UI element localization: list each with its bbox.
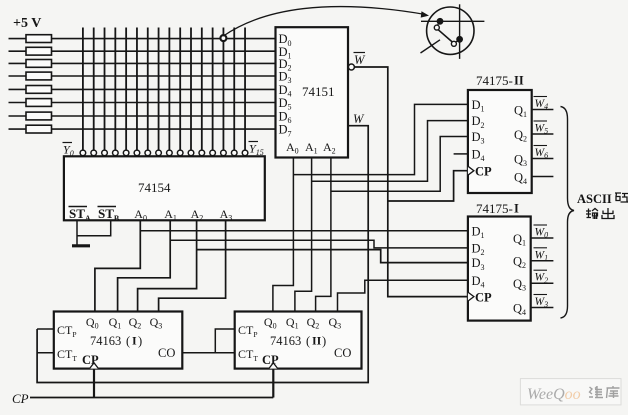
wire column 14 (74154 Y14 output column) xyxy=(233,28,235,151)
op-IC U5 74175-II register box xyxy=(468,90,532,193)
op-IC U1 74151 multiplexer box xyxy=(276,27,349,157)
wire row 6 (key-matrix row to 74151 D6) xyxy=(9,115,276,117)
wire row 1 (key-matrix row to 74151 D1) xyxy=(9,50,276,52)
switch contact b xyxy=(456,39,460,42)
pin bubble Y8 of 74154 xyxy=(167,150,173,156)
wire CTT input of 74163(I) xyxy=(37,352,54,354)
node A (key crosspoint on column 13 / row 0) xyxy=(220,35,226,41)
svg-text:WeeQoo: WeeQoo xyxy=(527,386,581,403)
junction dot on row wire xyxy=(437,18,443,24)
pin bubble of inverted output W-bar xyxy=(348,64,354,70)
wire arc pointer from node A to key detail xyxy=(223,7,426,36)
resistor R8 xyxy=(26,125,52,133)
switch contact a xyxy=(438,21,441,25)
resistor R3 xyxy=(26,60,52,68)
wire 74163(II) Q3 riser to D4 of 74175-I xyxy=(338,280,468,311)
svg-text:II: II xyxy=(514,74,524,88)
pin bubble Y9 of 74154 xyxy=(177,150,183,156)
wire CP drop to 74163(I) xyxy=(93,369,95,398)
svg-text:CP: CP xyxy=(82,353,99,367)
wire column 5 (74154 Y5 output column) xyxy=(136,28,138,151)
ground xyxy=(72,244,90,247)
op-IC U4 74163(II) counter box xyxy=(235,312,362,369)
svg-text:(: ( xyxy=(126,334,130,348)
wire column 7 (74154 Y7 output column) xyxy=(158,28,160,151)
wire 74151 A0 line to 74163(II) Q0 xyxy=(273,158,294,312)
svg-text:CO: CO xyxy=(158,346,175,360)
wire column 9 (74154 Y9 output column) xyxy=(179,28,181,151)
wire CTP input of 74163(I) xyxy=(37,328,54,330)
resistor R5 xyxy=(26,86,52,94)
wire 74163(I) Q0 riser to 74154 A0 xyxy=(95,220,140,311)
wire row 3 (key-matrix row to 74151 D3) xyxy=(9,75,276,77)
junction dot on column wire xyxy=(457,36,463,42)
clock wedge of 74163(I) xyxy=(90,363,99,369)
wire column 11 (74154 Y11 output column) xyxy=(201,28,203,151)
wire branch to D2 of 74175-II xyxy=(312,121,468,182)
wire column 10 (74154 Y10 output column) xyxy=(190,28,192,151)
op-IC U3 74163(I) counter box xyxy=(54,312,183,369)
wire CO of 74163(I) to CTT of 74163(II) xyxy=(182,352,234,354)
svg-text:+5 V: +5 V xyxy=(13,16,41,31)
wire column 1 (74154 Y1 output column) xyxy=(93,28,95,151)
svg-text:74151: 74151 xyxy=(302,84,335,99)
switch lever xyxy=(438,30,452,42)
switch actuator stroke xyxy=(421,40,441,53)
svg-text:74175-: 74175- xyxy=(476,73,513,88)
wire W-bar output to register clocks xyxy=(354,67,468,297)
svg-text:CP: CP xyxy=(475,165,492,179)
wire Q2 output of 74175-I xyxy=(531,260,554,262)
wire column through switch xyxy=(459,4,461,59)
wire row 4 (key-matrix row to 74151 D4) xyxy=(9,88,276,90)
svg-text:ASCII: ASCII xyxy=(577,192,612,206)
wire stub D4 of 74175-II xyxy=(454,153,468,155)
svg-text:(: ( xyxy=(306,334,310,348)
op-IC U6 74175-I register box xyxy=(468,217,531,321)
wire 74163(I) Q2 riser to 74154 A2 xyxy=(138,220,197,311)
wire 74163(I) Q3 riser to 74154 A3 xyxy=(159,220,226,311)
pin bubble Y3 of 74154 xyxy=(113,150,119,156)
pin bubble Y15 of 74154 xyxy=(242,150,248,156)
wire column 0 (74154 Y0 output column) xyxy=(82,28,84,151)
svg-text:): ) xyxy=(322,334,326,348)
hanzi CHU (out-2) xyxy=(602,208,614,219)
hanzi SHU (out-1) xyxy=(586,209,598,220)
wire Q4 output of 74175-I xyxy=(531,307,554,309)
pin bubble Y14 of 74154 xyxy=(231,150,237,156)
wire CP drop to 74163(II) xyxy=(272,369,274,398)
pin bubble Y12 of 74154 xyxy=(210,150,216,156)
resistor R7 xyxy=(26,112,52,120)
wire column 13 (74154 Y13 output column) xyxy=(222,28,224,151)
resistor R4 xyxy=(26,72,52,80)
pin bubble Y7 of 74154 xyxy=(156,150,162,156)
svg-text:W: W xyxy=(353,112,365,126)
pin bubble Y0 of 74154 xyxy=(80,150,86,156)
svg-text:CP: CP xyxy=(262,353,279,367)
wire to D1 of 74175-I xyxy=(140,230,468,232)
clock wedge of 74175-I xyxy=(468,292,474,301)
arrowhead of pointer arc xyxy=(421,11,429,17)
svg-text:CP: CP xyxy=(12,391,29,406)
clock wedge of 74175-II xyxy=(468,166,474,175)
wire ST-A to ground xyxy=(76,220,78,245)
wire Q4 output of 74175-II xyxy=(532,176,554,178)
svg-text:II: II xyxy=(312,334,322,348)
wire column 4 (74154 Y4 output column) xyxy=(125,28,127,151)
svg-text:74154: 74154 xyxy=(138,180,171,195)
watermark hanzi KU xyxy=(607,386,620,398)
svg-text:): ) xyxy=(138,334,142,348)
svg-text:CO: CO xyxy=(334,346,351,360)
wire row 2 (key-matrix row to 74151 D2) xyxy=(9,62,276,64)
wire column 15 (74154 Y15 output column) xyxy=(244,28,246,151)
resistor R2 xyxy=(26,47,52,55)
svg-text:74175-: 74175- xyxy=(476,201,513,216)
svg-text:74163: 74163 xyxy=(90,334,121,348)
watermark hanzi WEI xyxy=(589,386,603,398)
clock wedge of 74163(II) xyxy=(269,363,278,369)
pin bubble Y6 of 74154 xyxy=(145,150,151,156)
resistor R1 xyxy=(26,35,52,43)
svg-text:CP: CP xyxy=(475,291,492,305)
wire branch to D1 of 74175-II xyxy=(293,104,468,174)
resistor R6 xyxy=(26,99,52,107)
wire column 3 (74154 Y3 output column) xyxy=(114,28,116,151)
pin bubble Y10 of 74154 xyxy=(188,150,194,156)
wire column 2 (74154 Y2 output column) xyxy=(104,28,106,151)
wire Q1 output of 74175-I xyxy=(531,237,554,239)
watermark plate xyxy=(520,379,621,405)
op-IC U2 74154 decoder box xyxy=(64,156,265,220)
wire Q3 output of 74175-II xyxy=(532,158,554,160)
wire Q2 output of 74175-II xyxy=(532,133,554,135)
pin bubble Y13 of 74154 xyxy=(221,150,227,156)
wire branch to CTP of 74163(II) xyxy=(215,329,234,353)
wire 74151 A1 line to 74163(II) Q1 xyxy=(295,158,312,312)
switch S1 detail circle xyxy=(427,7,474,54)
pin bubble Y4 of 74154 xyxy=(123,150,129,156)
wire Q1 output of 74175-II xyxy=(532,109,554,111)
wire column 6 (74154 Y6 output column) xyxy=(147,28,149,151)
wire ST-B to ground xyxy=(77,220,111,235)
wire W-bar branch to CP of 74175-II xyxy=(388,171,468,201)
pin bubble Y5 of 74154 xyxy=(134,150,140,156)
svg-text:W: W xyxy=(354,53,366,67)
svg-text:74163: 74163 xyxy=(270,334,301,348)
svg-text:I: I xyxy=(132,334,137,348)
wire 74151 A2 line to 74163(II) Q2 xyxy=(316,158,331,312)
pin bubble Y11 of 74154 xyxy=(199,150,205,156)
wire column 12 (74154 Y12 output column) xyxy=(212,28,214,151)
wire row 5 (key-matrix row to 74151 D5) xyxy=(9,102,276,104)
wire branch to D3 of 74175-II xyxy=(331,137,468,192)
wire to D2 of 74175-I xyxy=(170,240,468,248)
hanzi MA (code) xyxy=(615,193,628,203)
pin bubble Y1 of 74154 xyxy=(91,150,97,156)
wire row 7 (key-matrix row to 74151 D7) xyxy=(9,128,276,130)
wire to D3 of 74175-I xyxy=(197,250,468,263)
output brace xyxy=(561,107,575,319)
wire row through switch xyxy=(421,20,484,22)
wire 74163(I) Q1 riser to 74154 A1 xyxy=(118,220,171,311)
pin bubble Y2 of 74154 xyxy=(102,150,108,156)
wire W output down to count-enable line xyxy=(37,126,368,383)
wire CP bus xyxy=(30,397,273,399)
wire row 0 (key-matrix row to 74151 D0) xyxy=(9,38,276,40)
wire Q3 output of 74175-I xyxy=(531,282,554,284)
wire column 8 (74154 Y8 output column) xyxy=(168,28,170,151)
svg-text:I: I xyxy=(514,202,519,216)
